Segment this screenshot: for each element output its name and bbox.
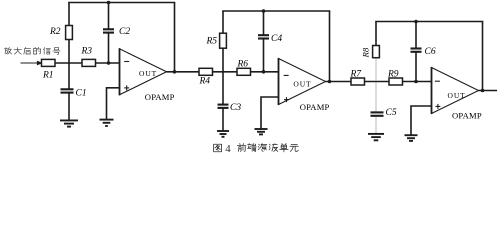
ground under C5 [368, 134, 384, 140]
node dot U1 output [173, 70, 177, 74]
svg-text:R1: R1 [42, 71, 54, 81]
svg-text:4: 4 [225, 143, 231, 154]
resistor R6 [237, 68, 251, 75]
svg-text:R5: R5 [206, 37, 218, 47]
wire: faint R8 bottom lead [375, 58, 377, 81]
resistor R2 [66, 26, 73, 40]
capacitor C1 plates [61, 88, 74, 90]
node dot C6/top rail [414, 20, 418, 24]
svg-text:C1: C1 [76, 89, 87, 99]
svg-text:OUT: OUT [448, 91, 466, 100]
svg-text:R3: R3 [81, 47, 93, 57]
svg-text:R4: R4 [199, 77, 211, 87]
wire: R2 top lead [68, 3, 70, 26]
resistor R7 [351, 78, 365, 85]
wire: C4 top lead [263, 11, 265, 35]
wire: stage1 top feedback rail [68, 2, 175, 4]
svg-text:R9: R9 [387, 70, 399, 80]
svg-text:OPAMP: OPAMP [300, 102, 330, 112]
svg-text:R7: R7 [350, 70, 363, 80]
wire: C2 top lead [108, 3, 110, 30]
resistor R9 [389, 78, 403, 85]
wire: C1 bottom lead to ground [68, 92, 70, 120]
wire: stage2 top feedback rail [222, 10, 330, 12]
resistor R1 [42, 59, 56, 66]
wire: C6 bottom lead to minus node [415, 52, 417, 82]
wire: C1 top lead [68, 63, 70, 89]
ground under U3 plus [405, 135, 418, 141]
text: 放大后的信号 (amplified signal) [4, 47, 60, 54]
node dot C4/minus [262, 70, 266, 74]
resistor R4 [199, 68, 213, 75]
wire: R2 bottom lead [68, 40, 70, 64]
node dot U2 output [328, 80, 332, 84]
wire: C4 bottom lead to minus node [263, 39, 265, 72]
capacitor C3 plates [218, 104, 229, 106]
svg-text:C6: C6 [425, 47, 436, 57]
op-amp U2 [279, 58, 330, 112]
wire: faint C5 bottom lead to ground [375, 116, 377, 133]
ground under U2 plus [255, 129, 268, 134]
wire: R3 to op-amp U1 minus [96, 62, 120, 64]
svg-text:R6: R6 [237, 60, 249, 70]
wire: U1 output row to R4 [167, 71, 200, 73]
op-amp U3 [432, 67, 482, 121]
svg-text:C5: C5 [386, 108, 397, 118]
resistor R8 [373, 46, 380, 58]
node dot C6/minus [414, 80, 418, 84]
node dot U3 output [481, 89, 485, 93]
wire: U2 output row to R7 [326, 81, 352, 83]
svg-text:R8: R8 [361, 47, 371, 58]
wire: faint node to C5 top lead [375, 82, 377, 112]
wire: stage3 top feedback rail [375, 21, 483, 23]
wire: stage1 feedback vertical to output [174, 3, 176, 72]
node dot C2/minus [107, 61, 111, 65]
wire: C3 top lead [222, 72, 224, 105]
svg-text:C3: C3 [230, 103, 241, 113]
capacitor C5 plates [371, 111, 384, 113]
input arrow [21, 61, 42, 65]
wire: U3 output stub [479, 90, 498, 92]
caption: 图 4 前端滤波单元 [214, 144, 299, 152]
resistor R3 [82, 59, 96, 66]
wire: U2 plus input to ground [261, 97, 279, 129]
wire: R7 to R9 [365, 81, 390, 83]
svg-text:R2: R2 [49, 27, 61, 37]
svg-text:OPAMP: OPAMP [452, 111, 482, 121]
ground under C3 [217, 131, 229, 137]
wire: R5 top lead [222, 11, 224, 33]
svg-text:OUT: OUT [293, 79, 311, 88]
wire: input row R1 to R3 [55, 62, 82, 64]
wire: R4 to R6 [213, 71, 238, 73]
wire: R9 to op-amp U3 minus [403, 81, 432, 83]
wire: R8 top lead [375, 22, 377, 46]
wire: C3 bottom lead to ground [222, 108, 224, 131]
op-amp U1 [120, 48, 175, 102]
ground under U1 plus [100, 120, 114, 126]
wire: U1 plus input to ground [107, 88, 120, 120]
resistor R5 [220, 33, 227, 48]
wire: stage3 feedback vertical to output [482, 22, 484, 91]
capacitor C4 plates [258, 34, 269, 36]
svg-text:C2: C2 [119, 27, 130, 37]
svg-text:C4: C4 [271, 34, 282, 44]
ground under C1 [60, 120, 78, 126]
wire: U3 plus input to ground [411, 106, 432, 135]
node dot C2/top rail [107, 1, 111, 5]
wire: C6 top lead [415, 22, 417, 49]
capacitor C2 plates [103, 28, 114, 30]
node dot C4/top rail [262, 9, 266, 13]
capacitor C6 plates [411, 47, 422, 49]
wire: C2 bottom lead to minus node [108, 32, 110, 63]
wire: R6 to op-amp U2 minus [251, 71, 279, 73]
svg-text:OUT: OUT [139, 69, 157, 78]
svg-text:OPAMP: OPAMP [145, 92, 175, 102]
wire: R5 bottom lead [222, 48, 224, 72]
wire: stage2 feedback vertical to output [329, 11, 331, 82]
